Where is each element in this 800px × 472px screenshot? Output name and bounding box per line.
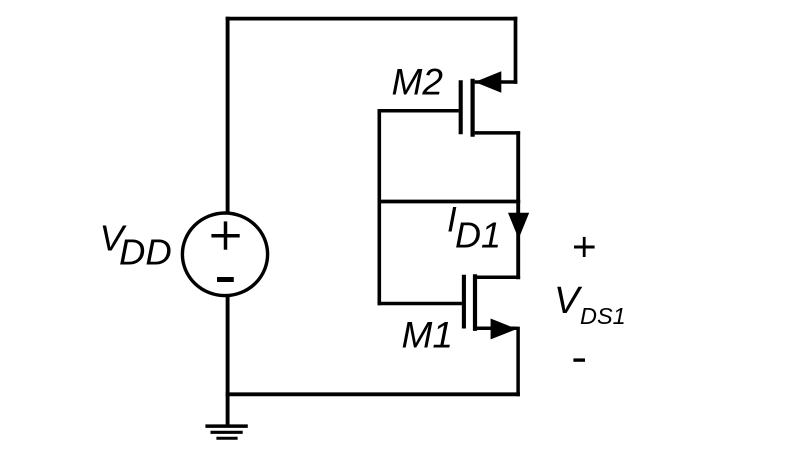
label VDS1	[554, 280, 626, 329]
M2 drain lead	[475, 131, 520, 135]
transistor M2 (PMOS)	[378, 71, 521, 136]
label ID1	[447, 201, 501, 256]
wire VDD bottom lead	[226, 296, 230, 427]
wire right-bottom riser (M1 source to bottom rail)	[516, 327, 520, 397]
M1 source arrow (points right away from channel)	[491, 319, 517, 340]
M1 gate lead	[378, 302, 462, 306]
ground	[205, 426, 247, 438]
M2 source arrow (points left into channel)	[475, 71, 502, 92]
svg-text:M1: M1	[402, 315, 453, 356]
wire VDD top lead	[226, 17, 230, 213]
wire left gate bus	[377, 109, 381, 305]
svg-text:M2: M2	[392, 62, 444, 103]
transistor M1 (NMOS)	[378, 274, 521, 339]
voltage source plus sign	[211, 221, 239, 249]
label plus (VDS1 polarity)	[574, 237, 595, 257]
M1 drain lead	[477, 275, 520, 279]
wire middle link (gate bus to drain node)	[378, 200, 521, 204]
M1 gate bar	[462, 275, 466, 329]
voltage source minus sign	[217, 277, 234, 282]
M2 gate bar	[459, 80, 463, 134]
voltage source VDD circle	[182, 213, 267, 296]
svg-text:DD: DD	[119, 232, 172, 273]
M2 gate lead	[378, 109, 459, 113]
wire top rail	[226, 17, 518, 21]
wire bottom rail	[226, 392, 520, 396]
svg-text:DS1: DS1	[580, 303, 626, 329]
M2 source lead	[475, 80, 518, 84]
M2 channel bar	[471, 79, 475, 137]
current arrow ID1 (downward)	[508, 213, 529, 239]
wire right-mid vertical (M2 drain to M1 drain)	[516, 131, 520, 279]
label minus (VDS1 polarity)	[573, 358, 585, 361]
wire top-right drop to M2 source	[514, 17, 518, 84]
M1 source lead	[477, 327, 517, 331]
M1 channel bar	[473, 274, 477, 331]
label VDD	[100, 218, 172, 273]
svg-text:V: V	[554, 280, 583, 322]
svg-text:D1: D1	[455, 215, 501, 256]
